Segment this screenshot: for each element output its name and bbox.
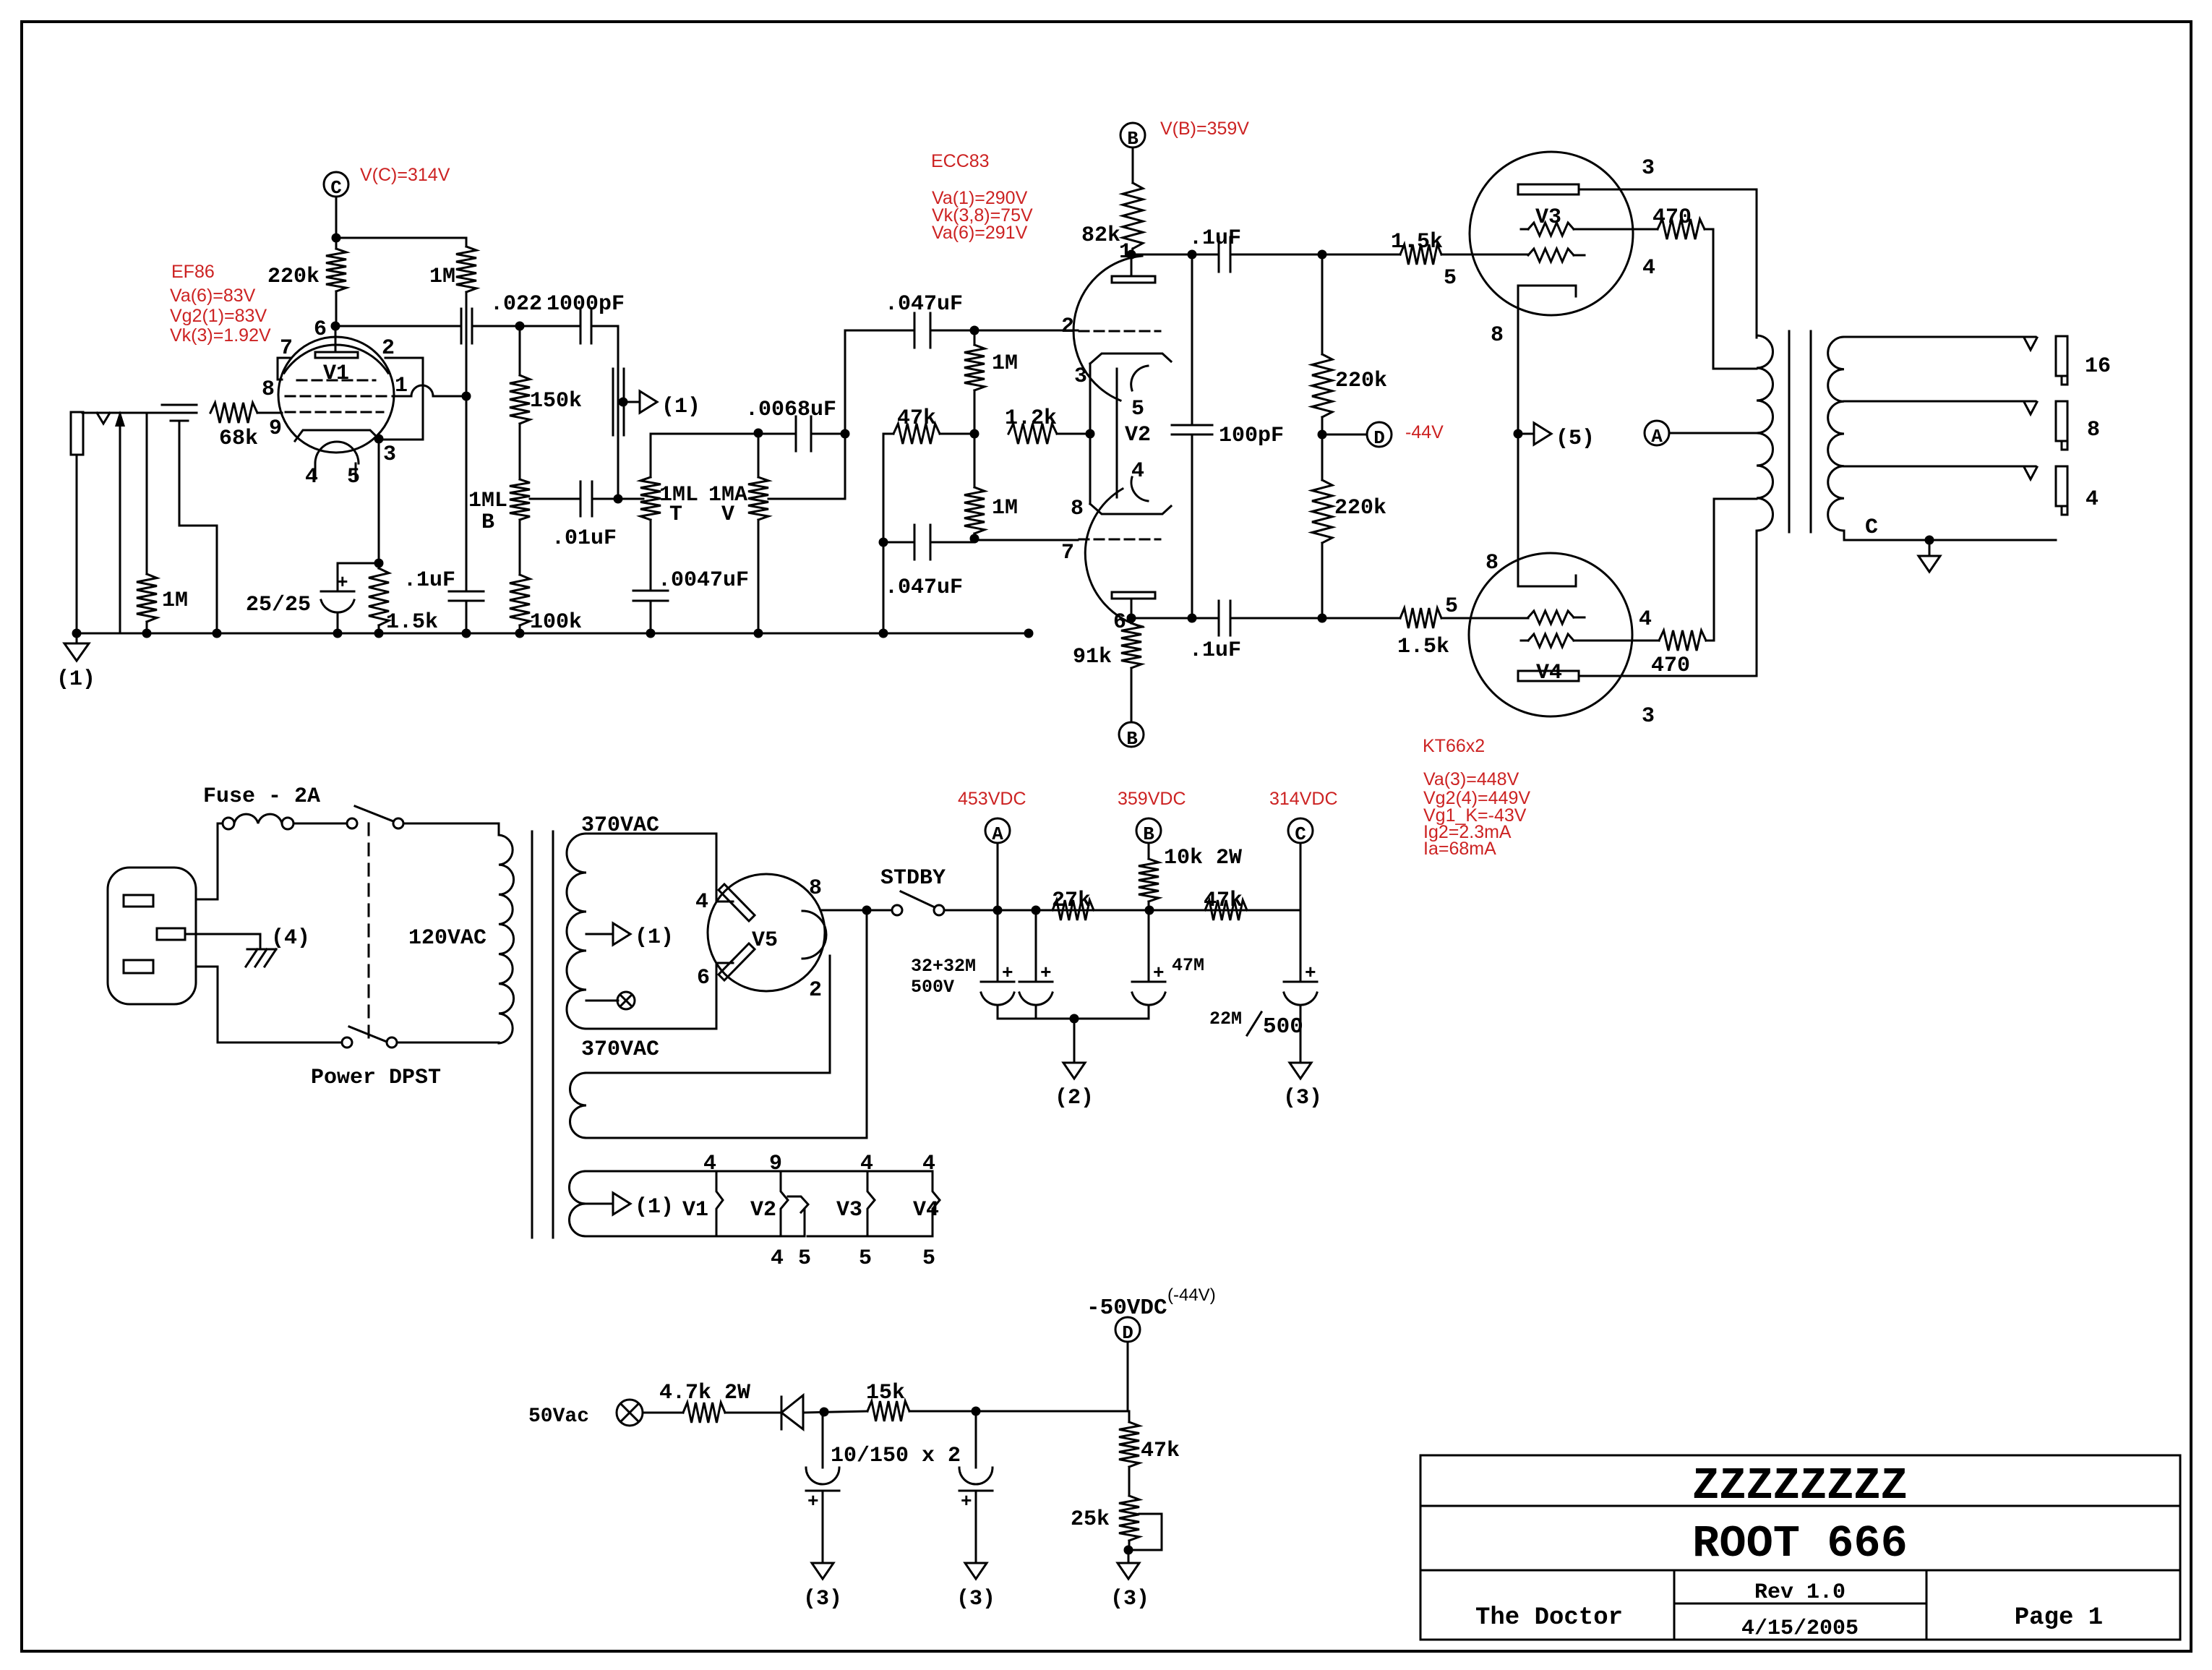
svg-text:STDBY: STDBY [880, 866, 946, 891]
svg-text:1.5k: 1.5k [1397, 635, 1449, 659]
power switch upper [347, 818, 357, 828]
node X tap [586, 1000, 618, 1002]
B+ rail [997, 843, 999, 910]
capacitor .0068uF [758, 433, 796, 435]
svg-text:(4): (4) [271, 926, 310, 951]
resistor 68k [210, 403, 257, 423]
OT sec 16 line [1844, 336, 2036, 338]
svg-text:120VAC: 120VAC [408, 926, 486, 951]
svg-text:V(C)=314V: V(C)=314V [360, 165, 450, 185]
OT sec 4 line [1844, 466, 2036, 468]
svg-text:.01uF: .01uF [552, 526, 617, 551]
jack 16 ohm [2056, 336, 2067, 376]
resistor 1M grid top [974, 330, 976, 345]
svg-text:500: 500 [1263, 1014, 1303, 1040]
title col line 2 [1926, 1570, 1928, 1640]
wire HT top to V5 pin4 [586, 834, 716, 902]
svg-text:1M: 1M [992, 351, 1018, 376]
svg-text:(1): (1) [635, 925, 674, 950]
wire C node down [1300, 843, 1302, 982]
wire 1000pF down riser [617, 326, 620, 499]
svg-text:(1): (1) [56, 667, 95, 692]
svg-text:.1uF: .1uF [1189, 226, 1241, 251]
wire to 1.5k top [1322, 254, 1400, 256]
input signal arrow [119, 421, 121, 633]
svg-text:.0047uF: .0047uF [658, 568, 749, 593]
resistor 1.5k cathode [374, 559, 384, 568]
svg-text:A: A [1651, 426, 1663, 448]
cathode junction and (5) send [1514, 429, 1523, 439]
svg-text:4: 4 [771, 1246, 784, 1271]
OT sec common line [1844, 539, 2056, 541]
tube V2 bottom arc [1085, 489, 1143, 627]
PT heater winding [570, 1171, 586, 1236]
PT primary coil [499, 835, 514, 1043]
svg-text:5: 5 [1131, 397, 1144, 421]
svg-text:Va(6)=83V: Va(6)=83V [170, 286, 256, 306]
cap 10/150 second [975, 1411, 977, 1468]
OT core [1788, 331, 1791, 532]
svg-text:+: + [1040, 962, 1052, 984]
HT CT send (1) [586, 933, 613, 935]
plug prong 2 [157, 928, 185, 940]
svg-text:10/150 x 2: 10/150 x 2 [831, 1444, 961, 1468]
svg-text:The Doctor: The Doctor [1475, 1604, 1623, 1632]
svg-text:Rev 1.0: Rev 1.0 [1754, 1580, 1846, 1605]
wire T top [651, 433, 758, 435]
pot 1MA V [758, 433, 760, 477]
resistor 1M grid bottom [974, 434, 976, 487]
wire 47k down to bus [883, 434, 885, 542]
fuse [223, 818, 234, 829]
svg-text:ECC83: ECC83 [931, 151, 990, 171]
svg-text:+: + [807, 1491, 819, 1512]
input signal V mark [97, 413, 110, 424]
capacitor 1000pF [520, 325, 580, 327]
V5 plate pin4 [719, 884, 755, 921]
V5 plate pin6 [719, 943, 755, 980]
svg-text:ZZZZZZZZ: ZZZZZZZZ [1692, 1460, 1908, 1512]
V3 g1 grid [1528, 249, 1574, 262]
wire pin6 to plate [335, 326, 337, 352]
svg-text:2: 2 [1061, 314, 1074, 339]
wire D down [1127, 1342, 1129, 1411]
svg-text:47M: 47M [1172, 955, 1204, 976]
wire fuse to switch [293, 823, 347, 825]
svg-text:Vg2(1)=83V: Vg2(1)=83V [170, 306, 267, 326]
svg-text:8: 8 [2087, 418, 2100, 442]
resistor 27k [1053, 900, 1094, 920]
V4 plate wire [1579, 675, 1757, 677]
tube V4 envelope [1469, 553, 1632, 716]
svg-text:47k: 47k [1141, 1439, 1180, 1463]
resistor 47k bias [1128, 1411, 1131, 1422]
wire input jack to 68k [82, 412, 162, 414]
V3 cathode [1518, 285, 1574, 287]
svg-text:1.5k: 1.5k [1391, 230, 1443, 254]
resistor 1.5k top [1400, 244, 1441, 265]
svg-text:470: 470 [1652, 205, 1692, 230]
svg-text:16: 16 [2085, 354, 2111, 379]
svg-text:T: T [669, 502, 682, 527]
pot 25k [1119, 1496, 1139, 1541]
cap 47M [1148, 910, 1150, 982]
OT secondary coil [1828, 337, 1844, 531]
input jack J1 [71, 412, 83, 455]
svg-text:3: 3 [383, 442, 396, 467]
node B bottom circle [1119, 722, 1144, 747]
svg-text:(5): (5) [1556, 427, 1595, 451]
V1 plate bar [315, 352, 358, 358]
svg-text:B: B [1126, 728, 1138, 750]
svg-text:1.2k: 1.2k [1005, 406, 1057, 431]
svg-text:V5: V5 [752, 928, 778, 953]
svg-text:3: 3 [1642, 156, 1655, 181]
svg-text:4: 4 [2085, 487, 2099, 512]
capacitor .1uF top [1218, 237, 1220, 272]
wire pin2 to LT winding [586, 956, 830, 1073]
svg-text:359VDC: 359VDC [1118, 789, 1186, 809]
cathode follower .1uF [466, 396, 468, 591]
wire pin6 to .022 [335, 325, 461, 327]
resistor 150k [519, 326, 521, 375]
svg-text:27k: 27k [1052, 888, 1091, 913]
riser x1169 [844, 330, 846, 499]
V3 plate wire [1579, 189, 1757, 191]
svg-text:91k: 91k [1073, 645, 1112, 669]
svg-text:Va(3)=448V: Va(3)=448V [1423, 769, 1519, 789]
V4 g1 grid [1528, 611, 1574, 624]
wire 68k to V1 pin9 [257, 412, 282, 414]
svg-text:(-44V): (-44V) [1167, 1285, 1216, 1305]
svg-text:4: 4 [860, 1152, 873, 1176]
ground bus [77, 633, 1029, 635]
PT core [531, 831, 533, 1238]
svg-text:.047uF: .047uF [885, 292, 963, 317]
resistor 470 top [1658, 219, 1705, 239]
power switch lower [342, 1037, 352, 1048]
svg-text:+: + [337, 572, 348, 594]
V1 grid3 dashed [297, 380, 375, 382]
resistor 91k [1127, 614, 1136, 623]
tube V2 top arc [1073, 256, 1142, 401]
node D junction [1322, 434, 1366, 436]
V2 grid bottom dashed [1079, 539, 1160, 541]
svg-text:(3): (3) [1283, 1086, 1322, 1110]
svg-text:Va(6)=291V: Va(6)=291V [932, 223, 1028, 243]
svg-text:3: 3 [1074, 364, 1087, 389]
capacitor .022 [460, 309, 463, 343]
svg-text:EF86: EF86 [171, 262, 215, 282]
resistor 1.2k [1008, 424, 1057, 444]
PT HT winding [567, 834, 586, 1029]
diode D1 [781, 1397, 783, 1429]
svg-text:32+32M: 32+32M [911, 956, 976, 977]
wire V1 pin1 with hop [393, 395, 411, 398]
heater bus bottom [586, 1236, 773, 1238]
svg-text:.1uF: .1uF [403, 568, 455, 593]
svg-text:KT66x2: KT66x2 [1423, 736, 1485, 756]
wire A to primary CT [1669, 432, 1757, 434]
heater bus top [586, 1170, 933, 1173]
title row line 2 [1420, 1570, 2180, 1572]
V1 heater stubs pins 4 5 [314, 463, 317, 479]
wire 15k to D riser [909, 1410, 1129, 1413]
node X bias [617, 1400, 643, 1426]
svg-text:5: 5 [347, 465, 360, 489]
svg-text:5: 5 [922, 1246, 935, 1271]
tube V1 envelope [278, 337, 394, 453]
svg-text:1000pF: 1000pF [546, 292, 625, 317]
wire X to 4.7k [643, 1412, 683, 1414]
resistor 4.7k 2W [683, 1403, 725, 1423]
wire pin6 line [1131, 617, 1219, 620]
svg-text:1ML: 1ML [468, 489, 507, 513]
svg-text:(3): (3) [1110, 1587, 1149, 1611]
svg-text:1: 1 [395, 374, 408, 398]
cap 10/150 first [822, 1412, 824, 1468]
svg-text:8: 8 [1491, 323, 1504, 348]
svg-text:50Vac: 50Vac [528, 1405, 589, 1428]
tube V1 top double arc [284, 345, 388, 373]
svg-text:V4: V4 [913, 1198, 939, 1222]
svg-text:6: 6 [314, 317, 327, 342]
wire lower switch to PT [397, 1042, 499, 1043]
svg-text:8: 8 [262, 377, 275, 402]
send arrow (1) [619, 398, 628, 407]
tube V5 envelope [708, 874, 825, 991]
heater V4 drop [933, 1171, 940, 1236]
heater V2 drop [781, 1171, 788, 1236]
svg-text:10k 2W: 10k 2W [1164, 846, 1242, 870]
capacitor .1uF bottom [1218, 601, 1220, 635]
svg-text:.0068uF: .0068uF [745, 398, 836, 422]
cap 32uF A [997, 910, 999, 982]
chassis ground [247, 949, 276, 951]
capacitor to send (1) [612, 369, 614, 435]
svg-text:100k: 100k [530, 610, 582, 635]
wire .047 top path [845, 330, 914, 332]
plug prong 3 [124, 960, 153, 973]
svg-text:Fuse - 2A: Fuse - 2A [203, 784, 320, 809]
resistor 220k lower [1321, 434, 1324, 480]
svg-text:4: 4 [1131, 459, 1144, 484]
svg-text:V3: V3 [1535, 205, 1561, 230]
wire to 1.5k bottom [1322, 617, 1400, 620]
wire V wiper to riser [768, 498, 845, 500]
node A circle PSU [985, 818, 1010, 843]
wire diode junction [803, 1411, 867, 1413]
svg-text:220k: 220k [1335, 369, 1387, 393]
V1 grid1 dashed [286, 411, 383, 414]
svg-text:C: C [1865, 515, 1878, 540]
svg-text:V: V [721, 502, 734, 527]
node A circle OT [1645, 421, 1669, 445]
PT LT winding [570, 1073, 587, 1138]
shield capacitor 3 bars [162, 404, 197, 406]
cap 32uF B [1035, 910, 1037, 982]
svg-text:1M: 1M [162, 588, 188, 613]
resistor 82k [1132, 147, 1134, 183]
svg-text:(3): (3) [803, 1587, 842, 1611]
svg-text:5: 5 [798, 1246, 811, 1271]
cap 22M 500 [1284, 981, 1317, 983]
svg-text:.1uF: .1uF [1189, 638, 1241, 663]
svg-text:470: 470 [1651, 654, 1690, 678]
svg-text:-50VDC: -50VDC [1086, 1296, 1167, 1321]
svg-text:370VAC: 370VAC [581, 1037, 659, 1062]
svg-text:V2: V2 [750, 1198, 776, 1222]
switch STDBY [892, 905, 902, 915]
svg-text:6: 6 [697, 966, 710, 990]
V2 cathode bottom [1090, 504, 1171, 514]
svg-text:Page 1: Page 1 [2015, 1604, 2103, 1632]
svg-text:7: 7 [280, 336, 293, 361]
svg-text:B: B [481, 510, 494, 535]
svg-text:4: 4 [1639, 607, 1652, 632]
jack 4 ohm [2056, 466, 2067, 506]
svg-text:Ia=68mA: Ia=68mA [1423, 839, 1496, 859]
svg-text:5: 5 [1445, 594, 1458, 619]
svg-text:8: 8 [809, 876, 822, 901]
heater V1 drop [716, 1171, 723, 1236]
OT sec 8 line [1844, 401, 2036, 403]
cap 25/25 [338, 563, 379, 591]
svg-text:V2: V2 [1125, 423, 1151, 448]
capacitor 100pF line [1191, 254, 1193, 425]
svg-text:314VDC: 314VDC [1269, 789, 1338, 809]
svg-text:2: 2 [809, 978, 822, 1003]
wire plug gnd [185, 934, 260, 949]
svg-text:ROOT 666: ROOT 666 [1692, 1518, 1908, 1570]
pot 25k wiper [1128, 1514, 1162, 1550]
capacitor .0047uF [633, 590, 668, 592]
resistor 1M feedback [456, 247, 476, 292]
V2 cathode wire [1089, 364, 1092, 504]
resistor 470 bottom [1659, 630, 1706, 651]
svg-text:+: + [1002, 962, 1013, 984]
OT ground [1929, 540, 1931, 556]
svg-text:8: 8 [1071, 497, 1084, 521]
wire B wiper to .01uF [530, 498, 580, 500]
wire .022 to node [472, 325, 520, 327]
V4 cathode [1519, 586, 1574, 588]
svg-text:(1): (1) [635, 1195, 674, 1220]
svg-text:5: 5 [1444, 266, 1457, 291]
V1 heater arc [315, 442, 359, 463]
svg-text:D: D [1373, 427, 1385, 449]
svg-text:(1): (1) [661, 395, 700, 419]
capacitor .047uF bottom [883, 541, 914, 544]
svg-text:+: + [961, 1491, 972, 1512]
svg-text:1M: 1M [992, 496, 1018, 521]
resistor 1M input [146, 413, 148, 574]
pot 1ML B [510, 479, 530, 520]
wire plug neutral [196, 967, 342, 1042]
node C circle PSU [1288, 818, 1313, 843]
svg-text:4: 4 [922, 1152, 935, 1176]
resistor 220k plate [335, 238, 338, 249]
node D circle bias [1115, 1317, 1140, 1342]
title block outer [1420, 1455, 2180, 1640]
V2 plate bottom bar [1112, 592, 1155, 599]
svg-text:1M: 1M [429, 265, 455, 289]
svg-text:2: 2 [382, 336, 395, 361]
wire LT bottom return [586, 910, 867, 1138]
wire C down [335, 197, 338, 238]
svg-text:5: 5 [859, 1246, 872, 1271]
resistor 1.5k bottom [1400, 608, 1441, 628]
svg-text:453VDC: 453VDC [958, 789, 1026, 809]
wire 4.7k to diode [725, 1412, 781, 1414]
svg-text:4: 4 [695, 890, 708, 915]
svg-text:V1: V1 [323, 361, 349, 386]
V2 grid top dashed [1079, 330, 1160, 333]
svg-text:+: + [1153, 962, 1165, 984]
svg-text:25k: 25k [1071, 1507, 1110, 1532]
plug prong 1 [124, 895, 153, 907]
svg-text:15k: 15k [866, 1381, 905, 1405]
svg-text:47k: 47k [897, 406, 936, 431]
svg-text:.047uF: .047uF [885, 575, 963, 600]
svg-text:.022: .022 [490, 292, 542, 317]
wire switch to PT [403, 823, 499, 835]
svg-text:47k: 47k [1204, 888, 1243, 913]
node B circle PSU [1136, 818, 1161, 843]
ground (1) at input [72, 629, 82, 638]
svg-text:V3: V3 [836, 1198, 862, 1222]
node pin6 junction [331, 322, 340, 331]
OT primary taps [1756, 337, 1758, 339]
resistor 15k [867, 1401, 909, 1421]
pot 1ML T [650, 434, 652, 477]
V3 plate bar [1518, 184, 1579, 194]
V1 grid2 dashed [286, 395, 390, 398]
V1 cathode junction pin3 [374, 434, 384, 444]
capacitor .047uF top [914, 313, 916, 348]
svg-text:Power DPST: Power DPST [311, 1066, 441, 1090]
wire pin1 to .1uF [1131, 254, 1219, 256]
svg-text:25/25: 25/25 [246, 593, 311, 617]
svg-text:4: 4 [305, 465, 318, 489]
shield drop wire [179, 422, 217, 633]
V4 plate bar [1518, 671, 1579, 681]
svg-text:3: 3 [1642, 704, 1655, 729]
svg-text:7: 7 [1061, 541, 1074, 565]
title col line 1 [1673, 1570, 1676, 1640]
title mid line [1674, 1603, 1926, 1605]
wire V5 pin8 out [820, 909, 892, 912]
svg-text:4/15/2005: 4/15/2005 [1741, 1617, 1859, 1641]
DPST dashed link [368, 823, 370, 1042]
heater V3 drop [867, 1171, 875, 1236]
V2 cathode top [1090, 354, 1171, 364]
V2 heater [1116, 369, 1118, 497]
V2 plate top bar [1112, 276, 1155, 283]
wire C to 1M [336, 237, 466, 239]
svg-text:100pF: 100pF [1219, 424, 1284, 448]
V5 cathode arc [802, 911, 826, 959]
capacitor 100pF [1172, 424, 1212, 427]
title row line 1 [1420, 1505, 2180, 1507]
svg-text:220k: 220k [1334, 496, 1386, 521]
wire plug hot [196, 823, 223, 899]
V3 cathode wire [1517, 286, 1519, 586]
svg-text:4: 4 [703, 1152, 716, 1176]
resistor 10k 2W [1148, 843, 1150, 859]
OT primary coil [1757, 335, 1773, 531]
resistor 100k [510, 575, 530, 625]
